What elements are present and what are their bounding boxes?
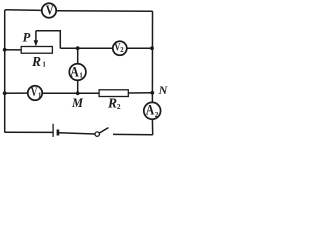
svg-text:R: R [31,54,41,69]
svg-text:2: 2 [120,47,124,54]
wire top right segment [56,10,152,13]
svg-text:1: 1 [79,70,83,79]
svg-text:N: N [158,83,169,97]
junction V2 to right wire [150,46,154,50]
wire top left segment [5,9,42,12]
svg-text:2: 2 [155,110,159,119]
battery long plate [52,124,54,137]
switch lever [99,128,108,134]
wire switch to bottom right [113,133,153,135]
voltmeter V2 [113,41,127,55]
battery short plate [57,130,60,136]
wire V1 to R2 [42,92,99,94]
svg-text:A: A [70,63,79,80]
wire left side [4,10,6,133]
ammeter A2 [144,102,161,119]
wire battery to switch [59,133,95,134]
svg-text:2: 2 [117,102,121,111]
svg-text:V: V [31,86,38,100]
svg-text:P: P [23,31,31,45]
svg-text:1: 1 [42,61,46,69]
wire bottom left to battery [5,131,53,133]
svg-text:1: 1 [38,92,42,99]
switch pivot circle [95,132,99,136]
wire V1 branch from left [5,92,28,94]
svg-text:R: R [107,96,117,111]
slider arrowhead [34,40,39,46]
wire tap to V2 [60,47,113,49]
voltmeter V [42,3,56,17]
wire right side upper [151,11,153,102]
ammeter A1 top stem [77,48,79,64]
svg-text:M: M [71,96,84,110]
resistor R2 body [99,90,128,97]
ammeter A1 [69,64,86,81]
node N junction [150,91,154,95]
slider arrow P stem [35,31,37,42]
voltmeter V1 [28,86,42,100]
junction on left wire at R1 branch [3,48,7,52]
ammeter A1 bottom stem [77,80,79,93]
junction on left wire at V1 branch [3,91,7,95]
wire V2 to right side [127,47,153,49]
slider tap wire [36,31,60,48]
svg-text:A: A [146,101,155,118]
wire R2 to node N [128,92,152,94]
wire right side lower [151,119,153,135]
node M junction [76,91,80,95]
junction at A1 top [76,46,80,50]
rheostat R1 body [21,47,52,54]
wire to rheostat R1 [5,49,22,51]
svg-text:V: V [46,2,54,18]
